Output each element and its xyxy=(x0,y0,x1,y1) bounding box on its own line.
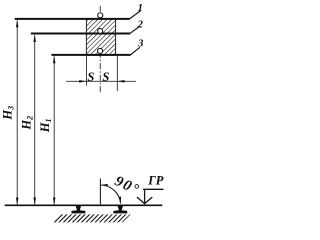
sight bar 2 xyxy=(31,33,130,35)
svg-text:2: 2 xyxy=(137,20,144,31)
level mark GR arrowhead xyxy=(137,197,152,204)
svg-text:ГР: ГР xyxy=(147,173,164,187)
hatched staff block xyxy=(86,19,115,55)
level mark GR bar xyxy=(143,188,164,190)
sight bar 1 xyxy=(15,18,130,20)
leader line 1 xyxy=(130,11,140,19)
extension line right xyxy=(116,56,118,91)
svg-text:3: 3 xyxy=(137,39,143,50)
dimension line S-S xyxy=(66,80,136,82)
benchmark right xyxy=(113,206,127,214)
ground hatch xyxy=(53,214,131,222)
dimension line H1 xyxy=(53,56,55,204)
leader line 3 xyxy=(131,47,140,54)
pivot circle 2 xyxy=(98,28,103,33)
angle arc 90 xyxy=(100,185,120,204)
benchmark left xyxy=(71,206,85,214)
pivot circle 3 xyxy=(98,48,103,53)
svg-text:S: S xyxy=(87,70,94,84)
dimension line H2 xyxy=(34,35,36,204)
dimension line H3 xyxy=(16,20,18,204)
plumb ray of right angle xyxy=(99,179,101,206)
centerline (axis) through staff block xyxy=(99,6,101,94)
svg-text:1: 1 xyxy=(138,3,143,14)
extension line left xyxy=(85,56,87,86)
pivot circle 1 xyxy=(98,13,103,18)
leader line 2 xyxy=(130,26,139,33)
svg-text:S: S xyxy=(102,70,109,84)
ground line xyxy=(5,204,163,206)
sight bar 3 xyxy=(51,54,130,56)
level mark GR stem xyxy=(144,189,146,203)
